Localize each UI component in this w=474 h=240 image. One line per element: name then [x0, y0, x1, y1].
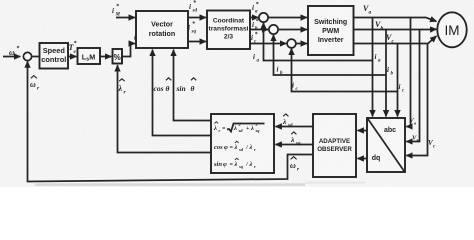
wire current tap ia down to abc — [372, 18, 374, 117]
node ib* label — [252, 18, 260, 32]
node lambda-r-hat label — [118, 79, 127, 96]
node cos-theta label — [154, 78, 172, 93]
wire speed control to LsM — [68, 56, 76, 58]
block LsM — [78, 48, 101, 64]
wire S2 to PWM — [268, 17, 307, 19]
node Vc small label — [428, 139, 436, 150]
block abc-dq transform — [367, 118, 405, 172]
wire observer to flux box (lambda-sq) — [276, 144, 314, 146]
node Va label — [363, 4, 372, 16]
wire phase c row — [354, 36, 437, 44]
block coordinat transformasi 2/3 — [207, 11, 250, 50]
wire abc-dq to observer lower — [358, 158, 368, 160]
wire omega-r-hat feedback long — [28, 61, 314, 181]
summing junction S3 — [269, 25, 278, 34]
node sin-theta label — [176, 78, 197, 93]
wire Vb tap down to abc-dq — [406, 30, 419, 142]
wire phase a row — [354, 18, 437, 22]
equation row 3 sin phi — [213, 158, 256, 169]
wire cos-theta to vector rotation — [153, 50, 212, 136]
node iT* label — [134, 31, 142, 45]
wire iM* input — [116, 17, 135, 19]
wire coordinat to S2 (ia*) — [250, 17, 258, 19]
node omega-r-hat label left — [30, 76, 40, 92]
wire S3 to PWM — [278, 29, 307, 31]
node ib label right — [387, 66, 394, 77]
paper noise — [0, 0, 474, 187]
scan shadow under bottom wire — [35, 182, 365, 186]
wire observer to flux box (lambda-sd) — [276, 126, 314, 128]
wire omega-r* input — [3, 56, 20, 58]
node ia label right — [375, 53, 382, 64]
block vector rotation — [136, 11, 188, 48]
wire lambda-r feedback to divider — [118, 65, 212, 152]
wire S1 to speed control — [31, 56, 39, 58]
wire divider to vector rotation — [122, 44, 135, 57]
block divider % — [113, 49, 123, 64]
wire phase b row — [354, 28, 437, 30]
wire ib feedback to S3 — [274, 35, 387, 75]
wire LsM to divider — [100, 56, 111, 58]
wire abc-dq to observer upper — [358, 130, 368, 132]
node isq* label — [188, 21, 196, 35]
wire current tap ic down to abc — [397, 44, 399, 117]
node isd* label — [189, 0, 197, 14]
node iM* label — [112, 3, 121, 18]
block adaptive observer — [313, 114, 356, 177]
node Vb label — [375, 20, 384, 32]
node lambda-sd-hat label — [282, 114, 293, 129]
node omega-r-hat label bottom — [290, 157, 300, 173]
node lambda-sq-hat label — [290, 132, 301, 147]
wire ic feedback to S4 — [292, 49, 398, 92]
node ia label left — [253, 53, 260, 64]
equation row 2 cos phi — [214, 141, 256, 152]
node ic label right — [399, 83, 406, 94]
wire Vc tap down to abc-dq — [406, 44, 427, 156]
node Vc label — [386, 33, 395, 45]
wire Va tap down to abc-dq — [406, 18, 410, 127]
node ic* label — [251, 31, 259, 45]
wire coordinat to S4 (ic*) — [250, 43, 286, 45]
node omega-r* label — [9, 45, 20, 61]
wire S4 to PWM — [296, 43, 307, 45]
summing junction S2 — [259, 13, 268, 22]
block speed control — [40, 43, 69, 69]
block switching PWM inverter — [308, 6, 354, 55]
wire sin-theta to vector rotation — [174, 50, 212, 121]
node ib label left — [277, 66, 284, 77]
node Va small label — [410, 117, 418, 126]
summing junction S1 — [23, 52, 31, 60]
summing junction S4 — [287, 39, 296, 48]
wire coordinat to S3 (ib*) — [250, 29, 268, 31]
motor IM — [437, 12, 466, 47]
wire ia feedback to S2 — [264, 23, 373, 61]
node Te* label — [69, 40, 78, 55]
wire current tap ib down to abc — [385, 30, 387, 117]
node ia* label — [252, 1, 260, 15]
block flux equations — [211, 114, 274, 173]
wire vector rotation to coordinat (isd*) — [188, 17, 206, 19]
node ic label left — [292, 82, 299, 93]
node Vb small label — [412, 135, 420, 144]
equation row 1 lambda-r = sqrt — [213, 122, 265, 133]
wire vector rotation to coordinat (isq*) — [188, 41, 206, 43]
